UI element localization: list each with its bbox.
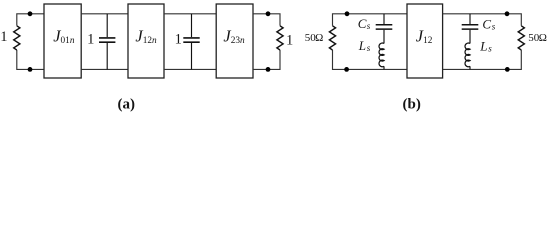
node dot top-right port	[266, 11, 271, 16]
svg-text:C: C	[358, 16, 367, 31]
wire below inductor left	[383, 66, 385, 69]
J-inverter box J01n	[44, 4, 81, 78]
inductor Ls left branch	[379, 43, 384, 67]
wire below inductor right	[469, 66, 471, 69]
svg-text:s: s	[488, 43, 492, 53]
wire bottom rail box2-box3	[164, 68, 216, 70]
node dot top-left port	[28, 11, 33, 16]
node dot bottom-right port	[266, 67, 271, 72]
wire left port top	[17, 14, 44, 26]
svg-text:C: C	[482, 16, 491, 31]
resistor 50 Ohm load	[518, 26, 524, 50]
capacitor C1 (shunt, value 1)	[99, 14, 115, 70]
svg-text:1: 1	[87, 32, 94, 48]
inductor Ls right branch	[465, 43, 470, 67]
wire left port top (b)	[333, 14, 408, 26]
svg-text:s: s	[492, 21, 496, 31]
capacitor C2 (shunt, value 1)	[183, 14, 199, 70]
wire right port top	[253, 14, 280, 26]
wire left port bottom	[17, 50, 44, 69]
wire bottom rail box1-box2	[81, 68, 128, 70]
capacitor Cs left branch	[376, 14, 393, 44]
resistor R source (value 1)	[14, 26, 20, 50]
J-inverter box J23n	[216, 4, 253, 78]
wire top rail box2-box3	[164, 13, 216, 15]
node dot bottom-left port	[28, 67, 33, 72]
wire left port bottom (b)	[333, 50, 408, 69]
svg-text:Ω: Ω	[315, 32, 323, 44]
svg-text:(b): (b)	[403, 96, 421, 112]
svg-text:Ω: Ω	[539, 32, 547, 44]
svg-text:s: s	[367, 43, 371, 53]
wire right port bottom	[253, 50, 280, 69]
svg-text:1: 1	[0, 29, 7, 45]
node dot top-left port (b)	[345, 11, 350, 16]
svg-text:L: L	[479, 38, 487, 53]
wire top rail box1-box2	[81, 13, 128, 15]
svg-text:1: 1	[175, 32, 182, 48]
wire right rail bottom (b)	[443, 50, 522, 69]
capacitor Cs right branch	[462, 14, 479, 44]
svg-text:s: s	[367, 21, 371, 31]
node dot top-right port (b)	[505, 11, 510, 16]
node dot bottom-left port (b)	[344, 67, 349, 72]
node dot bottom-right port (b)	[505, 67, 510, 72]
resistor 50 Ohm source	[329, 26, 335, 50]
wire right rail top (b)	[443, 14, 522, 26]
svg-text:L: L	[358, 38, 366, 53]
J-inverter box J12	[407, 4, 443, 78]
J-inverter box J12n	[128, 4, 164, 78]
svg-text:1: 1	[286, 33, 293, 49]
resistor R load (value 1)	[277, 26, 283, 50]
svg-text:(a): (a)	[118, 96, 136, 112]
